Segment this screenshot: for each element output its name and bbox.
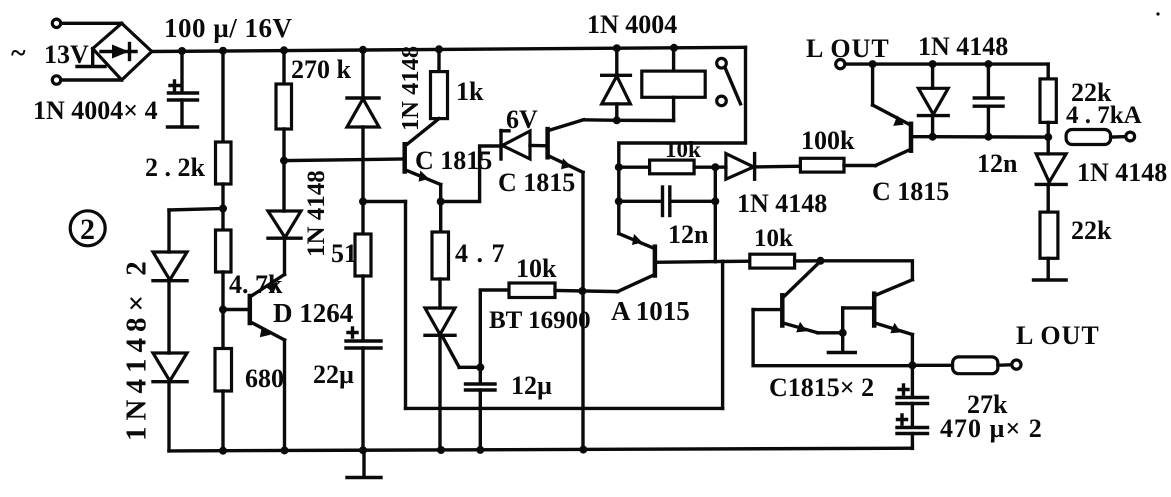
node — [280, 157, 288, 165]
node — [839, 329, 847, 337]
node — [359, 198, 367, 206]
wire — [167, 281, 170, 353]
svg-text:6V: 6V — [506, 105, 538, 134]
node — [1044, 133, 1052, 141]
wire base row — [933, 135, 1049, 139]
capacitor 100u 16V — [168, 51, 198, 127]
resistor 10k (pair) — [723, 254, 821, 268]
node — [908, 361, 916, 369]
terminal L OUT top — [836, 60, 845, 69]
resistor 51 — [355, 234, 371, 276]
node — [219, 447, 227, 455]
node — [281, 446, 289, 454]
node — [437, 446, 445, 454]
wire emitter down — [283, 340, 286, 450]
terminal AC bottom — [52, 76, 60, 84]
zener 6V — [501, 131, 548, 160]
node on rail at 270k — [280, 46, 288, 54]
wire — [167, 210, 170, 252]
node on rail at relay — [670, 44, 678, 52]
capacitor 12n (right) — [974, 64, 1003, 137]
wire — [438, 279, 441, 308]
svg-text:4 . 7: 4 . 7 — [455, 239, 506, 268]
wire — [282, 50, 285, 84]
bridge rectifier 1N4004x4 — [77, 23, 152, 80]
capacitor 12n (relay row) — [619, 187, 716, 216]
node — [929, 133, 937, 141]
svg-text:L OUT: L OUT — [1016, 321, 1100, 350]
diode 1N4148 (left lower) — [153, 353, 187, 382]
svg-text:12n: 12n — [668, 220, 709, 249]
svg-text:270 k: 270 k — [291, 55, 352, 84]
node — [869, 60, 877, 68]
wire — [61, 78, 122, 81]
terminal L OUT bottom — [1012, 360, 1021, 369]
node on rail at 1N4004 — [613, 44, 621, 52]
resistor 270k — [276, 84, 292, 129]
wire corner down to feedback row — [721, 262, 724, 409]
svg-text:13V: 13V — [44, 40, 89, 69]
diode 1N4148 (above D1264) — [268, 211, 301, 238]
terminal AC top — [52, 19, 60, 27]
svg-text:4 . 7kA: 4 . 7kA — [1066, 102, 1142, 129]
svg-text:BT 16900: BT 16900 — [489, 307, 591, 334]
wire — [282, 129, 285, 211]
wire feedback horizontal — [406, 407, 723, 410]
node on rail at 51-branch — [359, 46, 367, 54]
node — [615, 197, 623, 205]
svg-text:10k: 10k — [665, 137, 701, 162]
svg-text:1N 4004× 4: 1N 4004× 4 — [33, 96, 158, 125]
resistor 22k (lower right) — [1040, 212, 1058, 258]
svg-text:10k: 10k — [516, 254, 557, 283]
wire to zener — [441, 146, 502, 202]
resistor 4.7 — [432, 232, 449, 279]
svg-text:C1815× 2: C1815× 2 — [769, 373, 874, 402]
wire gate to 10k — [480, 290, 509, 367]
thyristor BT169 — [425, 308, 480, 450]
node — [219, 205, 227, 213]
diode 1N4004 — [602, 48, 631, 120]
svg-text:L OUT: L OUT — [806, 34, 890, 63]
node — [359, 446, 367, 454]
wire — [221, 272, 224, 349]
node — [578, 287, 586, 295]
node gate — [476, 363, 484, 371]
transistor C1815 (output) — [873, 64, 933, 165]
node — [476, 446, 484, 454]
wire relay bottom row — [617, 119, 674, 123]
wire base feedback — [753, 310, 912, 366]
svg-text:A 1015: A 1015 — [611, 296, 690, 326]
wire — [221, 391, 224, 451]
node on rail at 2.2k — [219, 47, 227, 55]
node — [613, 116, 621, 124]
capacitor 470u x2 — [897, 365, 928, 448]
transistor C1815 pair-right — [843, 280, 913, 366]
diode 1N4148 (left upper) — [153, 252, 187, 281]
node — [984, 60, 992, 68]
diode 1N4148 (top right, vertical) — [918, 64, 948, 137]
ground (below rail) — [347, 450, 381, 478]
transistor C1815 pair-left — [753, 261, 843, 333]
wire — [283, 238, 286, 275]
wire base of D1264 — [223, 308, 248, 311]
node — [711, 197, 719, 205]
svg-text:C 1815: C 1815 — [498, 168, 575, 197]
svg-text:C 1815: C 1815 — [872, 177, 949, 206]
svg-text:100k: 100k — [801, 126, 855, 155]
node — [711, 163, 719, 171]
svg-text:1N 4004: 1N 4004 — [587, 10, 677, 39]
diode 1N4148 (pointing up) — [347, 98, 379, 127]
resistor 10k (gate) — [509, 283, 555, 298]
svg-text:51: 51 — [331, 239, 357, 268]
svg-text:100 µ/ 16V: 100 µ/ 16V — [164, 13, 293, 43]
transistor D1264 — [250, 275, 285, 341]
wire bottom rail — [169, 448, 912, 451]
svg-text:1N 4148: 1N 4148 — [1077, 158, 1167, 187]
wire — [437, 49, 440, 71]
node — [984, 133, 992, 141]
resistor 27k — [912, 357, 1011, 374]
wire — [361, 127, 364, 234]
node — [219, 306, 227, 314]
wire emitter down — [581, 172, 584, 449]
svg-text:1k: 1k — [456, 77, 484, 106]
resistor 680 — [215, 349, 232, 392]
resistor 4.7k — [216, 230, 232, 272]
wire left branch top — [169, 209, 223, 211]
svg-text:12n: 12n — [977, 149, 1018, 178]
resistor 22k (top right) — [1040, 64, 1056, 154]
resistor 2.2k — [216, 142, 232, 184]
diode 1N4148 (right column) — [1036, 154, 1066, 212]
resistor 10k (relay row) — [619, 160, 716, 174]
node — [437, 198, 445, 206]
wire to feedback — [363, 200, 406, 203]
node — [615, 163, 623, 171]
wire L OUT row — [845, 62, 1048, 65]
svg-text:2: 2 — [80, 213, 95, 246]
wire — [167, 382, 170, 451]
svg-text:1N 4148: 1N 4148 — [303, 170, 330, 257]
diode 1N4148 (horizontal) — [715, 154, 800, 180]
relay coil — [642, 48, 705, 121]
ground (right column) — [1034, 258, 1067, 280]
wire top rail — [152, 47, 746, 51]
svg-text:12µ: 12µ — [511, 371, 552, 400]
wire base row to C1815 — [284, 159, 405, 161]
svg-text:1N 4148: 1N 4148 — [918, 32, 1008, 61]
svg-text:1N4148× 2: 1N4148× 2 — [121, 255, 153, 441]
wire — [221, 184, 224, 230]
wire collector to relay node — [584, 118, 617, 122]
node on rail at 1k — [435, 45, 443, 53]
transistor C1815 (second) — [548, 120, 584, 173]
node — [817, 257, 825, 265]
capacitor 22u — [346, 328, 381, 450]
resistor 1k — [431, 72, 448, 119]
svg-text:10k: 10k — [754, 225, 793, 252]
transistor C1815 (first) — [405, 119, 441, 185]
resistor 4.7k A — [1066, 130, 1126, 145]
wire — [439, 185, 442, 233]
wire — [361, 50, 364, 98]
ground (pair) — [828, 333, 855, 353]
svg-text:470 µ× 2: 470 µ× 2 — [940, 414, 1043, 443]
capacitor 12u — [466, 367, 496, 450]
speck — [1156, 12, 1159, 15]
wire — [221, 51, 224, 142]
svg-text:2 . 2k: 2 . 2k — [145, 153, 206, 182]
svg-text:~: ~ — [11, 38, 26, 69]
svg-text:1N 4148: 1N 4148 — [397, 46, 424, 131]
wire 12n node down to base row — [714, 167, 717, 262]
svg-text:22k: 22k — [1071, 216, 1112, 245]
wire — [361, 276, 364, 340]
wire feedback vertical — [404, 202, 407, 409]
svg-text:D 1264: D 1264 — [273, 298, 353, 328]
transistor A1015 — [618, 234, 723, 292]
svg-text:22µ: 22µ — [313, 360, 354, 389]
wire — [61, 22, 122, 25]
resistor 100k — [800, 158, 844, 172]
terminal 4.7kA — [1126, 132, 1135, 141]
wire to right collector — [821, 261, 913, 280]
svg-text:1N 4148: 1N 4148 — [737, 189, 827, 218]
node — [929, 60, 937, 68]
wire — [555, 291, 618, 292]
wire — [844, 164, 876, 167]
label circled 2 — [70, 211, 105, 246]
node — [579, 446, 587, 454]
svg-text:680: 680 — [245, 364, 284, 393]
relay contact — [717, 58, 741, 105]
wire rail corner down — [619, 47, 746, 233]
node on rail at 100u — [178, 47, 186, 55]
